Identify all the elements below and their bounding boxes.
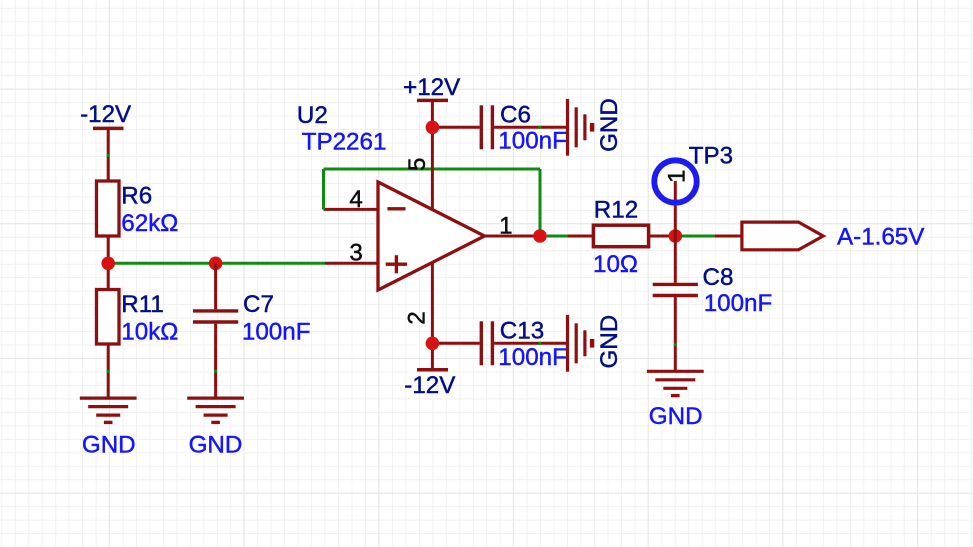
junction TP3 node xyxy=(669,229,683,243)
svg-text:GND: GND xyxy=(82,432,136,459)
svg-text:100nF: 100nF xyxy=(704,290,773,317)
plus symbol (pin 3) xyxy=(386,263,407,266)
resistor R12 xyxy=(593,225,648,247)
wire to test point TP3 xyxy=(674,181,677,236)
wire R6 to node xyxy=(107,236,110,263)
svg-text:GND: GND xyxy=(596,98,623,152)
pin 3 stub xyxy=(325,262,378,265)
connector flag A-1.65V xyxy=(742,222,823,250)
svg-text:C13: C13 xyxy=(500,318,544,345)
svg-text:U2: U2 xyxy=(297,102,328,129)
wire TP3 node to C8 xyxy=(674,236,677,283)
svg-text:GND: GND xyxy=(189,432,243,459)
R12 right stub xyxy=(649,235,676,238)
junction -12V node xyxy=(426,337,440,351)
wire -12V node to C13 xyxy=(432,342,479,345)
svg-text:TP3: TP3 xyxy=(689,143,733,170)
svg-text:100nF: 100nF xyxy=(498,344,567,371)
svg-text:C8: C8 xyxy=(703,264,734,291)
svg-text:+12V: +12V xyxy=(403,74,461,101)
wire C8 to ground xyxy=(674,297,677,371)
svg-text:TP2261: TP2261 xyxy=(302,129,387,156)
resistor R11 xyxy=(97,290,120,345)
wire C13 to ground xyxy=(494,342,567,345)
svg-text:5: 5 xyxy=(404,158,431,171)
capacitor C6 xyxy=(480,105,483,149)
ground right of C6 (rotated) xyxy=(566,99,569,156)
pin 5 power line xyxy=(431,127,434,209)
wire +12V node to C6 xyxy=(432,126,479,129)
svg-text:2: 2 xyxy=(403,311,430,324)
connector stub xyxy=(715,235,742,238)
power symbol +12V xyxy=(417,99,448,103)
junction node at C7 xyxy=(209,257,223,271)
svg-text:1: 1 xyxy=(499,213,512,240)
svg-text:4: 4 xyxy=(349,186,362,213)
wire R11 to ground xyxy=(107,344,110,398)
svg-text:62kΩ: 62kΩ xyxy=(121,210,178,237)
ground under C7 xyxy=(187,397,244,400)
svg-text:1: 1 xyxy=(663,170,690,183)
svg-text:GND: GND xyxy=(596,315,623,369)
ground under R11 xyxy=(80,397,137,400)
svg-text:C7: C7 xyxy=(243,291,274,318)
pin 4 stub xyxy=(324,208,379,211)
wire output to R12 (green) xyxy=(547,235,568,238)
svg-text:10Ω: 10Ω xyxy=(593,251,638,278)
pin 2 power line xyxy=(431,262,434,343)
svg-text:A-1.65V: A-1.65V xyxy=(837,223,925,250)
svg-text:10kΩ: 10kΩ xyxy=(121,319,178,346)
output pin 1 stub xyxy=(485,235,541,238)
svg-text:R6: R6 xyxy=(121,183,152,210)
power symbol -12V (top left) xyxy=(93,127,124,131)
junction +12V node xyxy=(426,121,440,135)
svg-text:R11: R11 xyxy=(121,291,164,318)
capacitor C7 xyxy=(193,309,238,312)
svg-text:-12V: -12V xyxy=(404,372,456,399)
R12 left stub xyxy=(567,235,593,238)
svg-text:C6: C6 xyxy=(500,101,531,128)
svg-text:-12V: -12V xyxy=(80,101,132,128)
wire -12V to R6 xyxy=(107,128,110,181)
capacitor C8 xyxy=(653,283,698,286)
wire net node to pin 3 (green) xyxy=(108,262,325,265)
feedback wire (green) xyxy=(322,169,325,209)
wire node to R11 xyxy=(107,263,110,289)
ground right of C13 (rotated) xyxy=(566,315,569,372)
svg-text:100nF: 100nF xyxy=(242,319,311,346)
svg-text:R12: R12 xyxy=(594,196,638,223)
junction node at R6/R11 xyxy=(101,257,115,271)
power symbol -12V (bottom) xyxy=(417,368,448,372)
ground under C8 xyxy=(647,370,704,373)
svg-text:3: 3 xyxy=(349,240,362,267)
test point TP3 circle xyxy=(654,160,696,202)
op-amp U2 TP2261 xyxy=(378,182,485,290)
wire TP3 node to connector (green) xyxy=(682,235,715,238)
svg-text:100nF: 100nF xyxy=(498,128,567,155)
junction output node xyxy=(533,229,547,243)
wire C7 node down xyxy=(214,263,217,309)
wire C6 to ground xyxy=(494,126,567,129)
capacitor C13 xyxy=(480,321,483,365)
svg-text:GND: GND xyxy=(649,403,703,430)
wire C7 to ground xyxy=(214,324,217,399)
test point TP3 circle fill xyxy=(652,158,700,206)
wire node to -12V bar xyxy=(431,343,434,368)
resistor R6 xyxy=(97,181,120,236)
minus symbol (pin 4) xyxy=(387,207,405,210)
